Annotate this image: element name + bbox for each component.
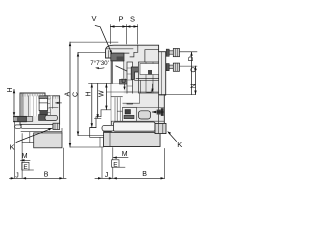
wedge bar with rungs	[127, 62, 133, 104]
jaw datum line	[89, 83, 112, 85]
bottom dim J/B (right view)	[95, 171, 165, 180]
svg-text:A: A	[65, 92, 72, 97]
dim line P/S	[111, 25, 138, 27]
top cap	[39, 96, 48, 99]
T-slot jaw dark profile	[131, 67, 138, 79]
svg-text:U: U	[121, 78, 126, 85]
draw bar sleeve	[114, 122, 156, 131]
svg-text:E: E	[113, 161, 118, 168]
white strip right of bar	[50, 96, 52, 109]
cavity white	[29, 96, 40, 116]
jaw slot white band	[140, 64, 159, 75]
front slab gap	[22, 94, 29, 117]
socket screw with arrow (right side)	[152, 108, 164, 116]
dark bits below wedge box	[120, 79, 132, 84]
mechanism row lines	[111, 108, 164, 122]
svg-text:V: V	[92, 14, 97, 23]
hex head of draw bar	[155, 123, 166, 133]
svg-text:B: B	[142, 171, 147, 178]
extension lines P/S	[111, 25, 138, 45]
svg-text:H: H	[7, 87, 14, 92]
small arrow pointing left at box	[55, 102, 61, 104]
top jaw steps	[130, 45, 159, 62]
chuck main body	[104, 45, 166, 146]
centerline horizontals right	[136, 79, 196, 95]
dim H (left view)	[7, 87, 15, 116]
svg-text:C: C	[73, 92, 80, 97]
draw bolt band (left view)	[21, 124, 53, 128]
dim H (right view)	[86, 84, 97, 128]
svg-text:B: B	[44, 171, 49, 178]
dark bits screw row	[39, 115, 47, 121]
top inner step line	[106, 49, 134, 58]
dim O	[180, 66, 198, 94]
svg-text:N: N	[191, 83, 198, 88]
svg-text:7°7'30': 7°7'30'	[90, 60, 109, 67]
bore step verticals	[115, 98, 123, 122]
label N	[191, 83, 198, 88]
leader V	[95, 26, 112, 55]
washer at front slab	[26, 117, 33, 122]
body main	[20, 93, 60, 124]
T-nut dark	[123, 108, 137, 122]
label K (left view) + leader	[10, 128, 53, 151]
svg-text:S: S	[130, 15, 135, 24]
band hex head	[53, 123, 60, 129]
top hatch band (left view)	[23, 93, 59, 98]
label V	[92, 14, 97, 23]
dark bar under box	[40, 111, 48, 115]
dim D	[180, 52, 197, 95]
svg-text:W: W	[99, 90, 106, 97]
label U with arrow	[121, 78, 126, 90]
extension lines bottom (left view)	[15, 121, 64, 178]
bottom adapter block	[104, 133, 161, 147]
backplate inner line	[161, 52, 163, 95]
dim E boxed (left view)	[22, 162, 34, 171]
dim A vertical	[65, 42, 119, 147]
line right of box	[50, 107, 58, 109]
svg-text:M: M	[122, 151, 128, 158]
svg-text:P: P	[119, 15, 124, 24]
lower band lines	[21, 128, 62, 133]
wedge nut dark cluster	[111, 53, 129, 61]
white cell below jaw block	[123, 94, 140, 104]
cavity white upper	[113, 61, 124, 84]
cavity white lower (bore)	[111, 84, 124, 121]
draw bar nose (thin)	[102, 125, 115, 131]
left protruding screw	[14, 116, 27, 122]
dim W	[99, 84, 108, 110]
svg-text:K: K	[10, 143, 15, 152]
draw bolt nose (left view)	[15, 125, 22, 128]
mounting bolt 2	[166, 63, 179, 71]
back plate divider	[159, 52, 165, 124]
rungs bar	[48, 98, 51, 119]
extension lines bottom (right view)	[102, 148, 165, 179]
bottom dim J/B (left view)	[10, 171, 67, 179]
label P	[119, 15, 124, 24]
inner screw light	[45, 115, 58, 120]
label L with arrow	[147, 84, 154, 94]
adjusting screw light	[139, 111, 151, 119]
mounting bolt 1 (top right)	[166, 49, 179, 57]
bottom block	[34, 133, 62, 148]
block inner vertical	[109, 133, 111, 147]
dim line mid unlabeled	[97, 84, 99, 119]
horizontal jaw row line	[107, 80, 159, 93]
svg-text:E: E	[23, 164, 28, 171]
guide box white	[39, 98, 47, 110]
dim M (right view)	[113, 151, 128, 159]
angle text 7deg7'30"	[90, 60, 109, 67]
angle leader arrow	[95, 67, 104, 69]
svg-text:O: O	[191, 67, 198, 73]
dim M (left view)	[21, 153, 31, 162]
dim C vertical	[73, 53, 106, 136]
svg-text:D: D	[188, 56, 195, 61]
dim E boxed (right view)	[112, 160, 125, 169]
wedge angle diagonal	[116, 66, 131, 73]
svg-text:M: M	[22, 153, 28, 160]
svg-text:H: H	[86, 91, 93, 96]
label S	[130, 15, 135, 24]
svg-text:J: J	[105, 172, 109, 179]
master jaw block right	[138, 62, 158, 93]
bottom-left stepped jaw (white)	[90, 110, 112, 147]
label K (right view) + leader	[167, 131, 182, 149]
svg-text:K: K	[177, 140, 182, 149]
bottom-left step lines	[22, 132, 34, 143]
